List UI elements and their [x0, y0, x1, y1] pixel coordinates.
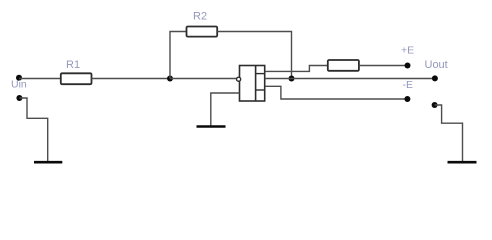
wire non-inverting input to ground: [211, 93, 240, 126]
terminal +E: [405, 63, 411, 69]
resistor R3 unlabeled: [328, 60, 359, 71]
terminal Uout (-): [432, 102, 438, 108]
terminal Uin (+): [16, 75, 22, 81]
wire node A up to R2: [170, 32, 187, 79]
wire Uin (-) to left ground: [19, 98, 47, 162]
ground left: [34, 161, 62, 164]
svg-text:R1: R1: [66, 59, 80, 71]
node A junction: [167, 76, 173, 82]
wire resistor R3 to +E terminal: [359, 65, 408, 67]
svg-text:Uin: Uin: [11, 79, 27, 91]
wire +E pin to resistor R3: [265, 66, 328, 72]
svg-text:Uout: Uout: [425, 59, 448, 71]
ground right: [448, 161, 477, 164]
terminal Uin (-): [16, 95, 22, 101]
svg-text:-E: -E: [403, 79, 414, 91]
node B junction: [289, 76, 295, 82]
wire Uin to R1: [19, 78, 61, 80]
op-amp U1 right column divider bottom: [256, 89, 265, 91]
wire op-amp output to Uout: [265, 78, 435, 80]
wire R2 to node B: [217, 32, 291, 79]
op-amp U1 body: [240, 66, 265, 102]
terminal -E: [404, 96, 410, 102]
op-amp U1 inner divider: [255, 66, 257, 102]
ground middle: [197, 125, 226, 128]
resistor R1: [61, 73, 92, 84]
op-amp U1 right column divider top: [256, 73, 265, 75]
wire node A to op-amp inverting input: [170, 78, 237, 80]
resistor R2: [187, 27, 218, 37]
terminal Uout: [432, 75, 438, 81]
svg-text:R2: R2: [193, 10, 207, 22]
inverting input bubble: [237, 77, 241, 81]
wire -E pin to terminal: [265, 86, 407, 99]
wire Uout (-) to right ground: [435, 105, 463, 162]
wire R1 to node A: [92, 78, 171, 80]
svg-text:+E: +E: [401, 45, 414, 57]
